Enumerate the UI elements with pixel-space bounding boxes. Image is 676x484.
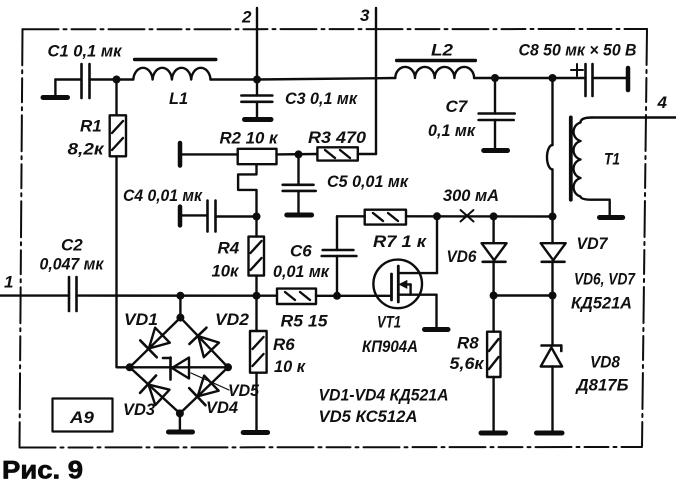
ground (R8) — [481, 431, 506, 436]
T1 primary winding loop — [547, 145, 552, 169]
ground (C1 input) — [43, 80, 68, 98]
ground (R6) — [243, 430, 267, 435]
svg-text:10к: 10к — [212, 262, 240, 281]
svg-text:8,2к: 8,2к — [68, 140, 106, 159]
capacitor C7 — [479, 78, 515, 148]
svg-text:VD1-VD4 КД521А: VD1-VD4 КД521А — [319, 386, 449, 405]
svg-text:А9: А9 — [69, 408, 95, 427]
resistor R5 — [277, 289, 316, 304]
T1 primary wire lower — [551, 169, 553, 216]
svg-text:0,1 мк: 0,1 мк — [428, 121, 476, 140]
inductor L1 — [133, 68, 210, 80]
node C (C8/T1 primary) — [549, 74, 557, 82]
svg-text:VD1: VD1 — [124, 310, 158, 329]
svg-text:2: 2 — [241, 8, 252, 27]
resistor R6 — [250, 331, 267, 373]
ground (bridge) — [169, 430, 193, 435]
T1 core bar — [569, 117, 573, 199]
bridge top node — [176, 314, 184, 322]
input wire to C2 — [0, 294, 69, 296]
svg-text:VD5 КС512А: VD5 КС512А — [319, 407, 418, 426]
svg-text:C3 0,1 мк: C3 0,1 мк — [285, 89, 358, 108]
zener VD8 — [541, 296, 562, 432]
wire L1 to node 2 — [211, 78, 258, 80]
svg-text:R4: R4 — [218, 239, 240, 258]
svg-text:R7 1 к: R7 1 к — [373, 232, 427, 251]
svg-text:R2 10 к: R2 10 к — [220, 129, 279, 148]
inductor L2 — [395, 67, 474, 78]
diode bridge top wire — [179, 296, 181, 318]
svg-text:VD6, VD7: VD6, VD7 — [574, 270, 636, 289]
R2 feedback jog wire — [238, 164, 256, 216]
transistor VT1 — [373, 216, 437, 308]
VD5 label leader line — [191, 373, 229, 390]
svg-text:R8: R8 — [457, 334, 479, 353]
resistor R4 — [249, 237, 265, 276]
diode VD7 — [541, 217, 566, 296]
node K (VD7/T1 primary bottom) — [549, 213, 557, 221]
node J (VD6 top) — [490, 212, 498, 220]
terminal 2 lead — [256, 8, 258, 80]
wire C4 to node E — [216, 215, 257, 217]
node D (R2/R3/C5) — [295, 150, 303, 158]
svg-text:R6: R6 — [273, 335, 295, 354]
svg-text:C4 0,01 мк: C4 0,01 мк — [123, 186, 203, 205]
main gate wire C2 to R5 — [77, 294, 278, 297]
svg-text:300 мА: 300 мА — [443, 186, 499, 205]
node 2 junction — [253, 76, 261, 84]
svg-text:0,01 мк: 0,01 мк — [273, 262, 330, 281]
R2 left terminal bar — [178, 143, 183, 166]
svg-text:R5 15: R5 15 — [281, 312, 329, 331]
svg-text:1: 1 — [4, 273, 13, 292]
R6 top wire — [255, 296, 257, 331]
terminal 3 lead — [375, 8, 377, 154]
svg-text:C8 50 мк × 50 В: C8 50 мк × 50 В — [519, 41, 637, 60]
svg-text:L2: L2 — [431, 41, 454, 60]
ground (C7) — [484, 148, 508, 153]
wire R2 to node D — [277, 153, 318, 156]
wire bar to R2 — [182, 153, 238, 155]
bridge bottom ground wire — [179, 413, 181, 429]
diode VD1 — [140, 327, 170, 358]
transformer T1 secondary winding — [574, 118, 592, 200]
svg-text:C1 0,1 мк: C1 0,1 мк — [48, 42, 123, 61]
wire R5 to VT1 gate — [316, 295, 390, 297]
capacitor C2 — [69, 277, 77, 311]
capacitor C6 — [322, 216, 357, 295]
L2 core bar — [397, 59, 476, 62]
node B (L2/C7) — [491, 74, 499, 82]
resistor R7 — [365, 210, 406, 225]
T1 secondary bottom wire — [592, 200, 610, 215]
svg-text:Рис. 9: Рис. 9 — [2, 457, 83, 484]
capacitor C8 polarized — [571, 64, 593, 96]
wire VD6-VD7 bottoms — [494, 294, 553, 296]
R8 top wire — [492, 296, 494, 332]
svg-text:Д817Б: Д817Б — [575, 376, 629, 395]
VT1 source down wire — [435, 295, 437, 327]
L1 core bar — [135, 58, 216, 61]
capacitor C4 — [208, 201, 216, 232]
wire C8 to end bar — [593, 77, 627, 79]
svg-text:VD3: VD3 — [123, 400, 156, 419]
diode VD2 — [189, 328, 220, 358]
wire node2 to L2 — [257, 78, 395, 80]
C4 left terminal bar — [178, 207, 183, 226]
bridge right node — [224, 363, 232, 371]
bridge left node — [126, 363, 134, 371]
zener VD5 — [163, 358, 189, 380]
wire gnd to C1 — [55, 78, 81, 80]
node M (VD7/VD8) — [549, 292, 557, 300]
ground (T1) — [600, 215, 623, 220]
svg-text:VD4: VD4 — [206, 398, 239, 417]
ground (VD8) — [537, 431, 563, 436]
svg-text:VT1: VT1 — [377, 313, 401, 332]
svg-text:10 к: 10 к — [274, 357, 306, 376]
node F (bridge top tap) — [176, 292, 184, 300]
node A (C1/L1/R1 junction) — [113, 76, 121, 84]
R4 top wire — [255, 217, 257, 237]
wire L2 to C8 — [474, 77, 585, 79]
svg-text:R3 470: R3 470 — [308, 128, 367, 147]
bridge edge wires — [130, 318, 228, 414]
terminal 4 wire — [592, 116, 676, 118]
ground (VT1 source) — [425, 327, 449, 332]
diode VD3 — [140, 376, 170, 407]
svg-text:C7: C7 — [446, 97, 469, 116]
svg-text:VD6: VD6 — [447, 247, 477, 266]
resistor R2 — [238, 149, 277, 164]
ground (C5) — [287, 213, 312, 218]
wire bar to C4 — [182, 214, 208, 216]
resistor R8 — [487, 332, 500, 377]
R8 bottom wire — [492, 377, 494, 431]
svg-text:0,047 мк: 0,047 мк — [40, 255, 105, 274]
svg-text:C2: C2 — [61, 236, 83, 255]
node G (R4/R6 tap) — [253, 292, 261, 300]
node H (C6 tap) — [333, 292, 341, 300]
svg-text:T1: T1 — [604, 150, 620, 169]
node L (VD6/R8) — [490, 292, 498, 300]
svg-text:VD8: VD8 — [590, 353, 620, 372]
R6 bottom wire — [255, 373, 257, 430]
svg-text:КП904А: КП904А — [362, 337, 418, 356]
capacitor C1 — [82, 64, 90, 98]
svg-text:4: 4 — [657, 93, 668, 112]
C8 terminal end bar — [626, 68, 631, 90]
R4 bottom wire — [255, 276, 257, 296]
svg-text:C5 0,01 мк: C5 0,01 мк — [327, 172, 409, 191]
node E (C4/R2 jog/R4) — [253, 213, 261, 221]
capacitor C3 — [241, 80, 272, 118]
svg-text:VD7: VD7 — [577, 234, 609, 253]
svg-text:VD5: VD5 — [228, 381, 260, 400]
svg-text:3: 3 — [360, 6, 370, 25]
diode VD4 — [189, 375, 219, 406]
svg-text:C6: C6 — [290, 242, 312, 261]
wire R3 to terminal 3 — [358, 153, 376, 155]
R1 bottom wire to bridge left node — [117, 156, 130, 367]
bridge bottom node — [176, 409, 184, 417]
T1 primary wire upper — [551, 78, 553, 145]
wire C1 to node A — [90, 78, 134, 80]
svg-text:5,6к: 5,6к — [450, 354, 485, 373]
node I (VT1 drain tap) — [433, 212, 441, 220]
wire C6 corner to R7 — [337, 215, 365, 217]
resistor R3 — [317, 147, 357, 160]
svg-text:КД521А: КД521А — [571, 294, 632, 313]
resistor R1 — [110, 115, 126, 156]
A9 module box — [53, 399, 113, 432]
current break X mark — [461, 210, 474, 222]
svg-text:VD2: VD2 — [215, 310, 250, 329]
svg-text:L1: L1 — [169, 89, 188, 108]
ground (C3) — [245, 117, 272, 122]
wire R7 to T1 (300 mA rail) — [406, 215, 553, 218]
diode VD6 — [482, 216, 507, 295]
R1 top wire — [115, 80, 117, 116]
capacitor C5 — [283, 154, 316, 213]
svg-text:R1: R1 — [80, 117, 102, 136]
